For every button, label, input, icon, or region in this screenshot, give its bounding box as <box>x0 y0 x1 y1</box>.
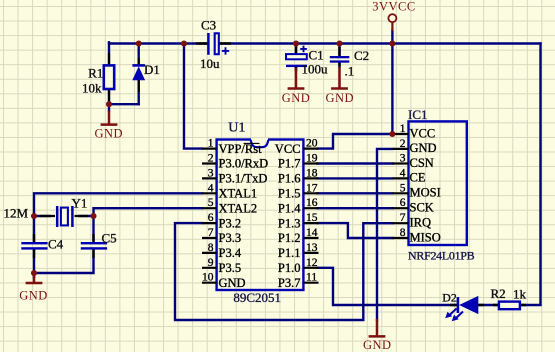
capacitor C4 <box>21 234 63 258</box>
wire crystal row left <box>34 215 50 217</box>
wire C4 leads <box>33 216 35 278</box>
svg-text:C3: C3 <box>201 18 216 33</box>
wire U1 pin20 VCC to IC1 pin1 <box>318 134 393 149</box>
junction dot IC1 VCC <box>389 131 395 137</box>
svg-text:GND: GND <box>410 141 437 155</box>
svg-text:3VVCC: 3VVCC <box>372 0 415 14</box>
ground C2 <box>326 67 355 105</box>
wire IC1 pin2 GND down <box>377 149 393 320</box>
U1 pin numbers left <box>202 138 214 284</box>
svg-text:1k: 1k <box>513 287 527 302</box>
wire XTAL2 to crystal right <box>94 208 203 216</box>
svg-text:P1.5: P1.5 <box>278 187 301 201</box>
svg-text:XTAL2: XTAL2 <box>219 201 258 215</box>
svg-text:P3.0/RxD: P3.0/RxD <box>219 157 269 171</box>
ground crystal C4/C5 <box>19 274 48 303</box>
svg-text:C5: C5 <box>102 230 117 245</box>
svg-text:4: 4 <box>400 167 406 179</box>
wire P1.3 to MISO <box>318 223 393 238</box>
svg-text:12M: 12M <box>4 206 29 221</box>
ground R1/D1 <box>95 111 124 141</box>
resistor R1 <box>82 53 114 101</box>
svg-text:P1.2: P1.2 <box>278 231 301 245</box>
IC1 pin numbers <box>400 123 406 239</box>
svg-text:P1.0: P1.0 <box>278 261 301 275</box>
svg-text:D1: D1 <box>144 62 160 77</box>
svg-text:C1: C1 <box>309 47 324 62</box>
svg-text:C4: C4 <box>48 236 64 251</box>
wire P1.4 to SCK <box>318 207 393 209</box>
svg-text:D2: D2 <box>442 290 457 304</box>
svg-text:1: 1 <box>208 138 214 150</box>
wire R1-D1 bottom horizontal <box>109 103 139 105</box>
svg-text:17: 17 <box>306 182 318 194</box>
svg-text:P3.3: P3.3 <box>219 231 242 245</box>
wire right rail down to R2 <box>520 44 540 306</box>
wire P3.2 to IRQ <box>175 223 393 320</box>
svg-text:16: 16 <box>306 197 318 209</box>
wire P1.5 to MOSI <box>318 192 393 194</box>
svg-text:NRF24L01PB: NRF24L01PB <box>408 248 475 262</box>
svg-text:VCC: VCC <box>275 142 301 156</box>
junction dot rail-C1 <box>293 40 299 46</box>
svg-text:GND: GND <box>326 91 355 105</box>
capacitor C5 <box>81 230 117 258</box>
svg-text:P1.7: P1.7 <box>278 157 301 171</box>
svg-text:8: 8 <box>208 242 214 254</box>
wire D2 to R2 <box>478 304 499 306</box>
wire R1 bottom lead <box>108 89 110 111</box>
svg-text:9: 9 <box>208 257 214 269</box>
diode D1 <box>132 58 160 92</box>
svg-text:P1.6: P1.6 <box>278 172 301 186</box>
wire top rail right segment <box>220 42 541 44</box>
svg-text:P3.1/TxD: P3.1/TxD <box>219 172 268 186</box>
svg-text:GND: GND <box>363 338 392 352</box>
svg-text:10u: 10u <box>200 56 220 71</box>
svg-text:6: 6 <box>400 197 406 209</box>
op-amp U1 89C2051 body <box>217 121 304 306</box>
svg-text:6: 6 <box>208 212 214 224</box>
U1 pin stubs right <box>303 149 318 283</box>
svg-text:U1: U1 <box>228 121 245 136</box>
wire power port drop to IC1 VCC <box>391 31 393 135</box>
svg-text:R2: R2 <box>491 286 506 301</box>
wire C2 top stub <box>338 44 340 57</box>
LED D2 <box>442 290 484 321</box>
wire D1 top lead <box>137 44 139 66</box>
svg-text:MOSI: MOSI <box>410 186 441 200</box>
svg-text:P1.1: P1.1 <box>278 246 301 260</box>
svg-text:5: 5 <box>400 182 406 194</box>
svg-text:XTAL1: XTAL1 <box>219 187 258 201</box>
svg-text:GND: GND <box>95 126 124 140</box>
capacitor C2 <box>330 47 369 79</box>
svg-text:13: 13 <box>306 242 318 254</box>
svg-text:MISO: MISO <box>410 230 441 244</box>
ground C1 <box>282 68 311 105</box>
svg-text:7: 7 <box>400 212 406 224</box>
U1 pin names right <box>275 142 301 290</box>
svg-text:IRQ: IRQ <box>410 216 432 230</box>
svg-text:100u: 100u <box>302 62 329 77</box>
junction dot C4-GND <box>31 270 37 276</box>
svg-text:P3.2: P3.2 <box>219 216 242 230</box>
svg-text:19: 19 <box>306 153 318 165</box>
svg-text:5: 5 <box>208 197 214 209</box>
resistor R2 <box>491 286 527 309</box>
svg-text:10k: 10k <box>82 81 102 96</box>
svg-text:11: 11 <box>306 272 317 284</box>
U1 pin names left <box>219 142 269 290</box>
IC1 NRF24L01PB body <box>408 107 475 262</box>
crystal Y1 <box>40 196 88 228</box>
wire P1.0 to D2 <box>318 268 457 305</box>
wire C5 leads and bottom horizontal <box>34 216 94 273</box>
svg-text:15: 15 <box>306 212 318 224</box>
wire C3 junction down to U1 pin1 <box>184 44 202 149</box>
wire P1.7 to CSN <box>318 162 393 164</box>
svg-text:GND: GND <box>219 276 246 290</box>
svg-text:8: 8 <box>400 227 406 239</box>
svg-text:2: 2 <box>208 153 214 165</box>
capacitor C1 <box>286 46 328 77</box>
U1 pin numbers right <box>306 138 318 284</box>
svg-text:12: 12 <box>306 257 318 269</box>
svg-text:P3.4: P3.4 <box>219 246 242 260</box>
svg-text:P1.4: P1.4 <box>278 201 301 215</box>
svg-text:10: 10 <box>202 272 214 284</box>
svg-text:SCK: SCK <box>410 201 434 215</box>
svg-text:89C2051: 89C2051 <box>233 290 281 305</box>
svg-text:.1: .1 <box>345 64 355 79</box>
svg-text:2: 2 <box>400 138 406 150</box>
svg-text:20: 20 <box>306 138 318 150</box>
junction dot rail-D1 <box>136 40 142 46</box>
svg-text:C2: C2 <box>354 48 369 63</box>
wire C2 bottom stub <box>338 62 340 67</box>
junction dot R1-D1-GND <box>106 101 112 107</box>
junction dot rail-pin1 <box>181 40 187 46</box>
IC1 pin stubs <box>393 134 409 238</box>
svg-text:Y1: Y1 <box>72 196 88 211</box>
ground IC1 pin2 <box>363 319 392 352</box>
svg-text:P1.3: P1.3 <box>278 216 301 230</box>
svg-text:P3.7: P3.7 <box>278 276 301 290</box>
svg-text:3: 3 <box>400 153 406 165</box>
power port 3VVCC <box>372 0 415 31</box>
junction dot rail-C2 <box>336 40 342 46</box>
junction dot crystal left <box>31 213 37 219</box>
svg-text:CSN: CSN <box>410 156 434 170</box>
wire top rail left segment <box>109 42 207 44</box>
svg-text:IC1: IC1 <box>408 107 428 122</box>
svg-text:VCC: VCC <box>410 126 436 140</box>
junction dot crystal right <box>90 213 96 219</box>
wire R1 top lead <box>108 42 110 65</box>
wire D1 bottom lead <box>137 80 139 104</box>
svg-text:4: 4 <box>208 182 214 194</box>
svg-text:14: 14 <box>306 227 318 239</box>
wire XTAL1 to crystal column <box>34 193 202 216</box>
svg-text:CE: CE <box>410 171 426 185</box>
svg-text:18: 18 <box>306 167 318 179</box>
wire P1.6 to CE <box>318 177 393 179</box>
svg-text:3: 3 <box>208 167 214 179</box>
IC1 pin names <box>410 126 441 244</box>
svg-text:7: 7 <box>208 227 214 239</box>
wire C1 top stub <box>295 44 297 54</box>
wire crystal row right <box>79 215 94 217</box>
capacitor C3 <box>196 18 231 72</box>
wire C1 bottom stub <box>295 67 297 70</box>
U1 pin stubs left <box>202 149 217 283</box>
junction dot rail-power <box>389 40 395 46</box>
svg-text:R1: R1 <box>88 65 103 80</box>
svg-text:P3.5: P3.5 <box>219 261 242 275</box>
svg-text:GND: GND <box>19 288 48 302</box>
svg-text:1: 1 <box>400 123 406 135</box>
svg-text:GND: GND <box>282 91 311 105</box>
